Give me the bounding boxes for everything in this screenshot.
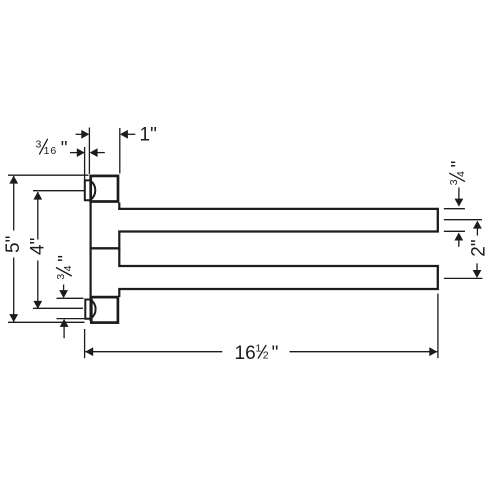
svg-text:": " xyxy=(61,138,68,159)
svg-text:16: 16 xyxy=(44,145,58,157)
svg-text:3: 3 xyxy=(448,179,460,185)
svg-text:4": 4" xyxy=(28,238,49,255)
svg-text:2": 2" xyxy=(469,239,490,256)
svg-text:1": 1" xyxy=(140,124,157,145)
svg-text:3: 3 xyxy=(36,138,42,150)
svg-text:": " xyxy=(272,343,279,364)
svg-text:4: 4 xyxy=(62,265,74,271)
svg-text:": " xyxy=(55,255,76,262)
svg-text:3: 3 xyxy=(55,274,67,280)
svg-text:4: 4 xyxy=(455,171,467,177)
svg-text:5": 5" xyxy=(3,236,24,253)
svg-text:2: 2 xyxy=(263,349,269,361)
svg-text:": " xyxy=(449,161,470,168)
svg-text:16: 16 xyxy=(235,343,256,364)
svg-text:1: 1 xyxy=(256,343,262,355)
